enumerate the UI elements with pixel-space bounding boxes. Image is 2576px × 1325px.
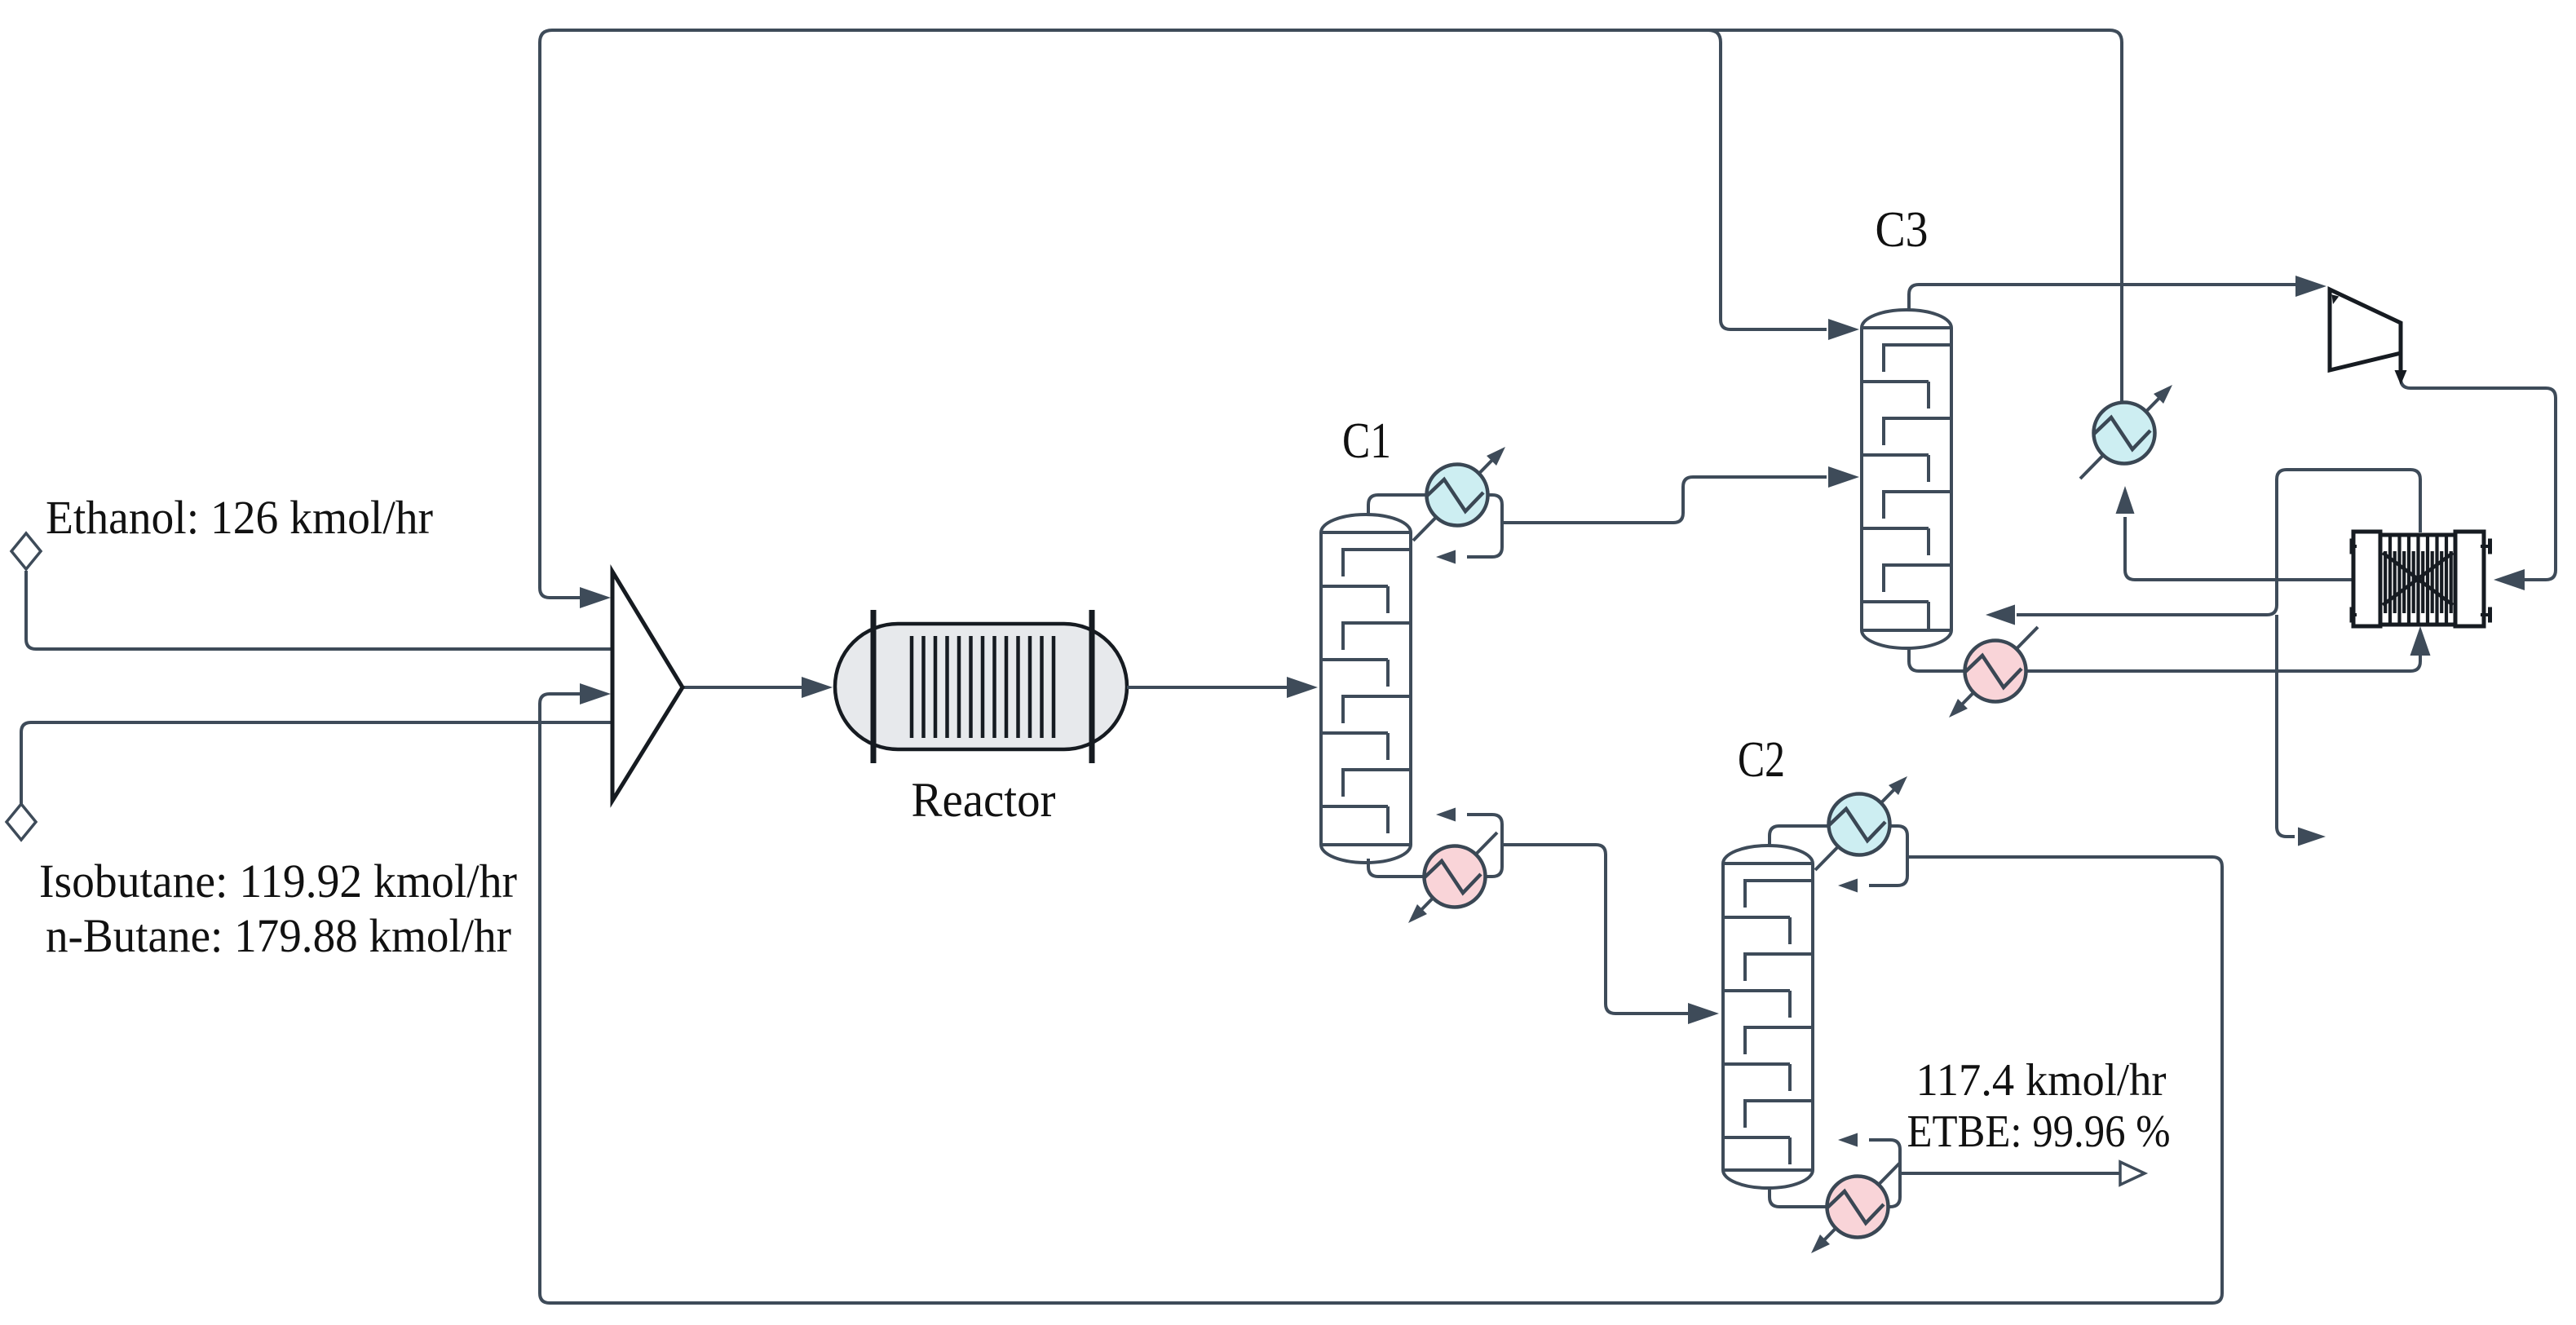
node arrow into reactor bbox=[802, 677, 833, 698]
column C3 bbox=[1862, 310, 1951, 648]
reboiler E5 (C3 bottoms) bbox=[1956, 627, 2038, 710]
wire top recycle line (condenser C3-ovhd to mixer) bbox=[540, 30, 2122, 598]
reactor R1 bbox=[835, 624, 1127, 749]
node arrow into C2 feed bbox=[1688, 1003, 1719, 1024]
node permeate outlet arrow bbox=[2298, 828, 2326, 846]
node ethanol source diamond bbox=[11, 533, 41, 569]
svg-text:C3: C3 bbox=[1876, 202, 1929, 258]
wire membrane outlet to recycle condenser bbox=[2125, 517, 2353, 580]
mixer M1 bbox=[612, 572, 683, 801]
svg-text:C1: C1 bbox=[1342, 413, 1391, 469]
node recycle arrow into mixer lower inlet bbox=[580, 683, 611, 704]
node C2 reflux arrow bbox=[1838, 879, 1858, 893]
wire C1 overhead loop bbox=[1368, 495, 1502, 557]
node arrow into C3 lower feed bbox=[1828, 466, 1859, 488]
reboiler E4 (C2 bottoms) bbox=[1818, 1163, 1900, 1246]
node butane source diamond bbox=[7, 804, 36, 840]
svg-text:ETBE: 99.96 %: ETBE: 99.96 % bbox=[1907, 1106, 2171, 1157]
wire reactor outlet to C1 bbox=[1127, 686, 1287, 689]
svg-text:117.4 kmol/hr: 117.4 kmol/hr bbox=[1916, 1055, 2167, 1106]
svg-text:n-Butane: 179.88 kmol/hr: n-Butane: 179.88 kmol/hr bbox=[46, 909, 511, 962]
node arrow up into condenser bbox=[2116, 486, 2135, 514]
wire C2 bottoms loop bbox=[1770, 1140, 1900, 1207]
svg-text:Reactor: Reactor bbox=[912, 773, 1056, 827]
wire C2 overhead loop bbox=[1770, 826, 1907, 886]
reboiler E2 (C1 bottoms) bbox=[1416, 833, 1497, 916]
node C3 return arrow bbox=[1986, 605, 2015, 625]
condenser E6 (recycle cooler) bbox=[2080, 392, 2165, 479]
wire C3 bottoms to membrane bbox=[1909, 648, 2420, 671]
node recycle arrow into mixer top inlet bbox=[580, 587, 611, 608]
wire ethanol feed line bbox=[26, 571, 612, 649]
node arrow into membrane right side bbox=[2494, 569, 2525, 590]
wire compressor discharge bbox=[2401, 378, 2556, 580]
node C1 reflux arrow bbox=[1436, 550, 1456, 564]
wire bottom recycle (C2 distillate to mixer) bbox=[540, 694, 2222, 1303]
wire mixer outlet bbox=[683, 686, 802, 689]
condenser E3 (C2 overhead) bbox=[1815, 784, 1900, 870]
node C1 boilup arrow bbox=[1436, 808, 1456, 822]
condenser E1 (C1 overhead) bbox=[1413, 454, 1498, 541]
wire membrane retentate return to C3 bbox=[2017, 470, 2420, 615]
svg-text:Ethanol: 126 kmol/hr: Ethanol: 126 kmol/hr bbox=[46, 491, 433, 544]
node C2 boilup arrow bbox=[1838, 1133, 1858, 1147]
svg-text:C2: C2 bbox=[1738, 732, 1785, 788]
wire C1 distillate to C3 bbox=[1502, 477, 1827, 523]
wire C3 overhead to compressor bbox=[1909, 285, 2295, 310]
node arrow into membrane bottom bbox=[2410, 626, 2431, 656]
node arrow into C3 upper feed bbox=[1828, 319, 1859, 340]
wire top line branch to C3 feed bbox=[1708, 30, 1827, 329]
column C2 bbox=[1723, 846, 1813, 1188]
node ETBE product open arrow bbox=[2120, 1162, 2145, 1185]
svg-text:Isobutane: 119.92 kmol/hr: Isobutane: 119.92 kmol/hr bbox=[39, 855, 517, 908]
node arrow into C1 feed bbox=[1287, 677, 1318, 698]
wire C1 bottoms to C2 feed bbox=[1502, 845, 1688, 1014]
compressor K1 bbox=[2330, 289, 2401, 370]
wire permeate outlet bbox=[2277, 615, 2295, 837]
wire ETBE product line bbox=[1900, 1172, 2120, 1175]
column C1 bbox=[1321, 515, 1411, 863]
wire C1 bottoms loop bbox=[1368, 815, 1502, 877]
node arrow into compressor bbox=[2295, 276, 2326, 297]
wire butane feed line bbox=[21, 722, 612, 804]
membrane separator M2 bbox=[2353, 532, 2380, 626]
